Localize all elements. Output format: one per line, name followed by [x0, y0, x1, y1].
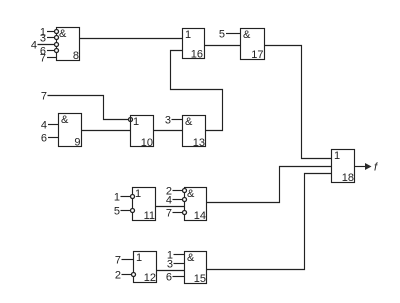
wire input 5 to DD11 [121, 210, 131, 212]
svg-text:14: 14 [194, 210, 206, 222]
gate DD11 (OR) box [133, 188, 156, 221]
inversion bubble DD8 pin 1 [55, 30, 59, 34]
wire input 1 to DD15 [174, 254, 185, 256]
gate DD8 (AND) box [57, 28, 80, 61]
inversion bubble DD11 pin 5 [131, 209, 135, 213]
svg-text:&: & [185, 116, 193, 128]
wire input 4 to DD9 [48, 124, 59, 126]
inversion bubble DD8 pin 4 [55, 43, 59, 47]
svg-text:7: 7 [40, 53, 46, 65]
svg-text:&: & [61, 114, 69, 126]
wire input 4 to DD8 [38, 44, 55, 46]
svg-text:1: 1 [114, 192, 120, 204]
svg-text:13: 13 [193, 137, 205, 149]
svg-text:1: 1 [185, 29, 191, 41]
svg-text:10: 10 [141, 137, 153, 149]
svg-text:16: 16 [191, 49, 203, 61]
svg-text:17: 17 [251, 49, 263, 61]
inversion bubble DD14 pin 7 [183, 211, 187, 215]
svg-text:7: 7 [41, 91, 47, 103]
wire DD10 output to DD13 [154, 130, 183, 132]
svg-text:15: 15 [194, 273, 206, 285]
gate DD16 (OR) box [183, 29, 205, 59]
svg-text:1: 1 [133, 116, 139, 128]
svg-text:4: 4 [41, 120, 47, 132]
wire input 3 to DD15 [174, 263, 185, 265]
wire input 1 to DD11 [121, 196, 131, 198]
svg-text:12: 12 [144, 272, 156, 284]
wire input 2 to DD12 [122, 274, 132, 276]
inversion bubble DD8 pin 3 [55, 36, 59, 40]
wire DD13 output to DD16 (right, up, left, up, right) [171, 51, 223, 131]
wire DD14 output to DD18 (right, up, right) [207, 167, 332, 203]
gate DD12 (OR) box [134, 252, 157, 283]
wire input 7 to DD12 [122, 259, 134, 261]
svg-text:4: 4 [166, 195, 172, 207]
inversion bubble DD14 pin 2 [183, 189, 187, 193]
inversion bubble DD14 pin 4 [183, 198, 187, 202]
inversion bubble DD11 pin 1 [131, 195, 135, 199]
svg-text:f: f [374, 162, 378, 174]
wire input 1 to DD8 [47, 31, 55, 33]
svg-text:8: 8 [73, 50, 79, 62]
svg-text:5: 5 [114, 206, 120, 218]
wire input 3 to DD13 [172, 119, 183, 121]
wire DD15 output to DD18 (right, up, right) [207, 174, 332, 270]
svg-text:9: 9 [74, 137, 80, 149]
svg-text:3: 3 [165, 115, 171, 127]
svg-text:1: 1 [334, 150, 340, 162]
wire input 6 to DD15 [173, 276, 185, 278]
svg-text:1: 1 [136, 252, 142, 264]
wire DD16 output to DD17 [205, 45, 241, 47]
svg-text:1: 1 [135, 188, 141, 200]
inversion bubble DD8 pin 6 [55, 49, 59, 53]
arrowhead output f [365, 163, 372, 170]
svg-text:5: 5 [219, 29, 225, 41]
wire input 2 to DD14 [173, 190, 183, 192]
svg-text:4: 4 [31, 40, 37, 52]
svg-text:11: 11 [144, 210, 155, 222]
wire DD11 output to DD14 [156, 206, 185, 208]
wire DD17 output to DD18 (right, down, right) [265, 46, 332, 159]
wire input 7 to DD14 [173, 212, 183, 214]
wire DD9 output to DD10 [82, 130, 131, 132]
wire input 5 to DD17 [226, 33, 241, 35]
svg-text:&: & [59, 28, 67, 40]
wire DD12 output to DD15 [157, 270, 185, 272]
wire input 7 to DD10 (right, down, right) [48, 96, 129, 120]
svg-text:7: 7 [115, 255, 121, 267]
wire DD18 output f [355, 166, 367, 168]
wire input 7 to DD8 [47, 57, 57, 59]
gate DD13 (AND) box [183, 116, 206, 147]
svg-text:&: & [187, 252, 195, 264]
wire input 6 to DD9 [48, 137, 59, 139]
svg-text:18: 18 [342, 172, 354, 184]
svg-text:&: & [187, 188, 195, 200]
gate DD9 (AND) box [59, 114, 82, 147]
gate DD18 (OR) box [332, 150, 355, 183]
wire input 6 to DD8 [47, 50, 55, 52]
svg-text:&: & [243, 29, 251, 41]
svg-text:6: 6 [41, 133, 47, 145]
inversion bubble DD12 pin 2 [132, 273, 136, 277]
gate DD15 (AND) box [185, 252, 207, 284]
svg-text:3: 3 [167, 259, 173, 271]
wire input 3 to DD8 [47, 37, 55, 39]
svg-text:3: 3 [40, 33, 46, 45]
svg-text:7: 7 [166, 208, 172, 220]
svg-text:2: 2 [115, 270, 121, 282]
svg-text:6: 6 [166, 272, 172, 284]
inversion bubble DD10 top input [129, 118, 133, 122]
gate DD10 (OR) box [131, 116, 154, 147]
wire DD8 output to DD16 [80, 38, 183, 40]
gate DD17 (AND) box [241, 29, 265, 60]
gate DD14 (AND) box [185, 188, 207, 221]
wire input 4 to DD14 [173, 199, 183, 201]
